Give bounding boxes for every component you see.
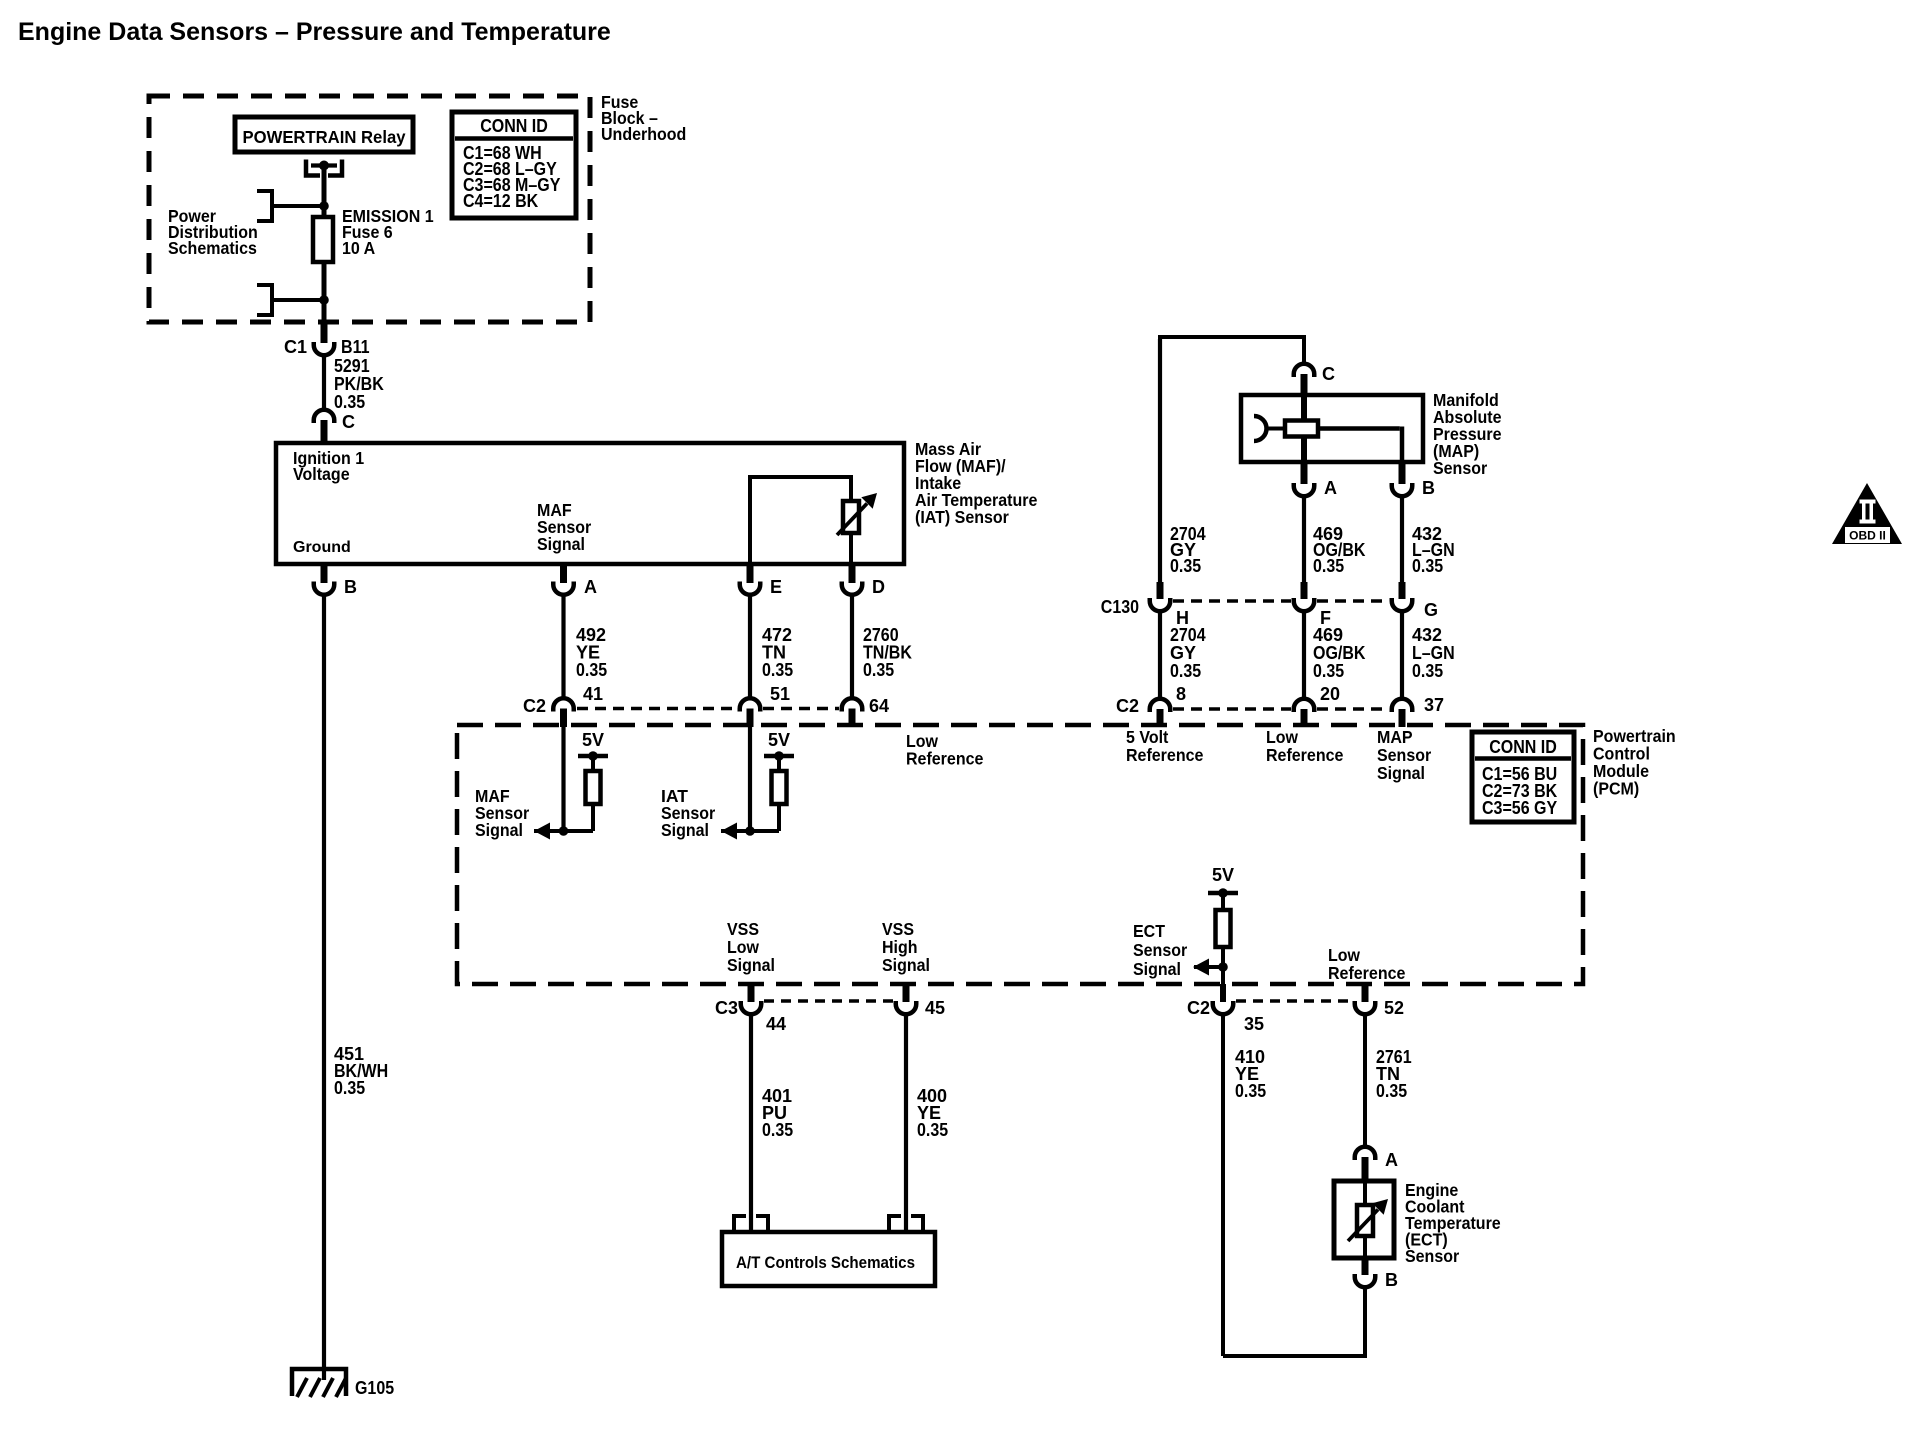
POWERTRAIN Relay box: [235, 117, 413, 152]
svg-text:Engine Data Sensors – Pressure: Engine Data Sensors – Pressure and Tempe…: [18, 18, 611, 46]
svg-text:VSS: VSS: [727, 919, 759, 939]
connector C1 pin B11: [284, 322, 370, 357]
svg-text:8: 8: [1176, 684, 1186, 704]
wire 410 YE: [1221, 1014, 1225, 1357]
svg-text:Sensor: Sensor: [1405, 1246, 1459, 1266]
wire 5291 PK/BK: [322, 354, 326, 411]
svg-text:Low: Low: [1266, 727, 1298, 747]
svg-text:0.35: 0.35: [863, 660, 894, 680]
svg-text:0.35: 0.35: [1313, 556, 1344, 576]
ground G105: [292, 1369, 394, 1398]
svg-text:469: 469: [1313, 625, 1343, 645]
connector pin A (ECT): [1355, 1147, 1398, 1181]
wire 469 OG/BK (lower): [1302, 611, 1306, 701]
connector C (MAP): [1294, 364, 1335, 395]
svg-text:OBD II: OBD II: [1849, 529, 1886, 543]
connector C2 pin 52: [1355, 998, 1404, 1018]
svg-text:0.35: 0.35: [1235, 1081, 1266, 1101]
connector C2 pin 8: [1116, 684, 1186, 727]
svg-text:G105: G105: [355, 1378, 394, 1398]
svg-text:Signal: Signal: [727, 955, 775, 975]
relay contact: [306, 160, 342, 176]
IAT thermistor symbol: [748, 475, 877, 564]
PCM dashed box: [457, 725, 1583, 984]
svg-text:(IAT) Sensor: (IAT) Sensor: [915, 507, 1009, 527]
svg-text:MAP: MAP: [1377, 727, 1413, 747]
svg-text:C2: C2: [1187, 998, 1210, 1018]
connector C130 pin G: [1392, 582, 1438, 620]
svg-text:Underhood: Underhood: [601, 124, 686, 144]
connector pin B (MAP): [1392, 462, 1435, 498]
svg-text:Signal: Signal: [537, 534, 585, 554]
connector C3 pin 44: [715, 984, 786, 1034]
jumper wire to MAP C: [1160, 337, 1304, 582]
svg-text:E: E: [770, 577, 782, 597]
svg-text:44: 44: [766, 1014, 786, 1034]
connector C (ignition): [314, 410, 355, 443]
svg-text:A/T Controls Schematics: A/T Controls Schematics: [736, 1253, 915, 1272]
wire 2760 TN/BK: [850, 594, 854, 700]
dashed connector link H-F-G: [1173, 599, 1291, 603]
svg-text:CONN ID: CONN ID: [1489, 737, 1557, 757]
svg-text:Signal: Signal: [661, 820, 709, 840]
svg-text:Voltage: Voltage: [293, 464, 350, 484]
wire 451 BK/WH to G105: [322, 594, 326, 1380]
svg-text:5291: 5291: [334, 356, 370, 376]
connector stub to power distribution (lower): [257, 285, 324, 315]
svg-text:0.35: 0.35: [917, 1120, 948, 1140]
OBD II symbol: [1832, 483, 1902, 544]
svg-text:A: A: [1385, 1150, 1398, 1170]
svg-text:Reference: Reference: [1328, 963, 1406, 983]
ECT sensor signal branch: [1133, 865, 1238, 984]
svg-text:C130: C130: [1101, 597, 1139, 617]
node: junction lower: [319, 295, 329, 305]
svg-text:OG/BK: OG/BK: [1313, 643, 1366, 663]
svg-text:C: C: [342, 412, 355, 432]
svg-text:0.35: 0.35: [334, 1078, 365, 1098]
svg-text:Reference: Reference: [906, 749, 984, 769]
svg-text:PK/BK: PK/BK: [334, 374, 384, 394]
connector C3 pin 45: [896, 984, 945, 1018]
dashed connector link 35-52: [1236, 999, 1352, 1003]
connector C130 pin F: [1294, 582, 1331, 628]
connector C2 pin 51: [740, 684, 790, 727]
wire: relay to fuse to C1: [322, 166, 327, 323]
svg-text:Ground: Ground: [293, 539, 351, 556]
wire 432 L-GN (upper): [1400, 495, 1404, 582]
svg-text:0.35: 0.35: [1170, 556, 1201, 576]
svg-text:0.35: 0.35: [576, 660, 607, 680]
CONN ID table (PCM): [1472, 732, 1574, 822]
fuse block - underhood dashed box: [149, 96, 590, 322]
svg-text:C2: C2: [523, 696, 546, 716]
svg-text:Schematics: Schematics: [168, 238, 257, 258]
wire 2704 GY (upper): [1158, 339, 1162, 582]
wire 2761 TN: [1363, 1014, 1367, 1147]
svg-text:C3: C3: [715, 998, 738, 1018]
wire 469 OG/BK (upper): [1302, 495, 1306, 582]
svg-text:5 Volt: 5 Volt: [1126, 727, 1169, 747]
svg-text:5V: 5V: [1212, 865, 1234, 885]
connector pin D: [842, 564, 885, 597]
svg-text:0.35: 0.35: [762, 660, 793, 680]
svg-text:0.35: 0.35: [1412, 661, 1443, 681]
svg-text:C2: C2: [1116, 696, 1139, 716]
svg-text:5V: 5V: [582, 730, 604, 750]
svg-text:D: D: [872, 577, 885, 597]
connector C2 pin 35: [1187, 984, 1264, 1034]
svg-text:52: 52: [1384, 998, 1404, 1018]
svg-text:35: 35: [1244, 1014, 1264, 1034]
connector C2 pin 41: [523, 684, 603, 727]
MAP sensor box: [1241, 395, 1423, 462]
svg-text:0.35: 0.35: [1376, 1081, 1407, 1101]
svg-text:Reference: Reference: [1126, 745, 1204, 765]
svg-text:CONN ID: CONN ID: [480, 116, 548, 136]
svg-text:0.35: 0.35: [1412, 556, 1443, 576]
svg-text:B11: B11: [341, 337, 370, 357]
svg-text:0.35: 0.35: [1170, 661, 1201, 681]
svg-text:Sensor: Sensor: [1433, 458, 1487, 478]
connector pin E: [740, 564, 782, 597]
ECT loop wire: [1223, 1287, 1365, 1357]
svg-text:0.35: 0.35: [1313, 661, 1344, 681]
svg-text:10 A: 10 A: [342, 238, 376, 258]
svg-text:Reference: Reference: [1266, 745, 1344, 765]
svg-text:Low: Low: [1328, 945, 1360, 965]
connector stub to power distribution (upper): [257, 191, 324, 221]
dashed connector link 8-20-37: [1173, 707, 1291, 711]
ECT sensor box: [1334, 1181, 1394, 1258]
connector pin A (MAP): [1294, 462, 1337, 498]
svg-text:41: 41: [583, 684, 603, 704]
svg-text:0.35: 0.35: [762, 1120, 793, 1140]
svg-text:2704: 2704: [1170, 625, 1206, 645]
svg-text:37: 37: [1424, 695, 1444, 715]
svg-text:Signal: Signal: [882, 955, 930, 975]
svg-text:20: 20: [1320, 684, 1340, 704]
svg-text:B: B: [344, 577, 357, 597]
svg-text:(PCM): (PCM): [1593, 779, 1639, 799]
connector pin B: [314, 564, 357, 597]
svg-text:VSS: VSS: [882, 919, 914, 939]
svg-text:GY: GY: [1170, 643, 1196, 663]
connector pin A: [553, 564, 597, 597]
wire 432 L-GN (lower): [1400, 611, 1404, 701]
svg-text:5V: 5V: [768, 730, 790, 750]
svg-text:POWERTRAIN Relay: POWERTRAIN Relay: [243, 127, 406, 147]
connector C2 pin 20: [1294, 684, 1340, 727]
svg-text:Sensor: Sensor: [1133, 940, 1187, 960]
wire 400 YE: [904, 1014, 908, 1233]
connector C2 pin 64: [842, 696, 889, 727]
dashed connector link 41-51-64: [577, 707, 737, 711]
svg-text:Signal: Signal: [475, 820, 523, 840]
svg-text:Signal: Signal: [1133, 959, 1181, 979]
svg-text:Sensor: Sensor: [1377, 745, 1431, 765]
MAF/IAT sensor box: [276, 443, 904, 564]
A/T controls box: [722, 1232, 935, 1286]
svg-text:Low: Low: [727, 937, 759, 957]
svg-text:Signal: Signal: [1377, 763, 1425, 783]
wire 472 TN: [748, 594, 752, 700]
wire 401 PU: [749, 1014, 753, 1233]
svg-text:ECT: ECT: [1133, 921, 1165, 941]
wire 492 YE: [561, 594, 565, 700]
svg-text:45: 45: [925, 998, 945, 1018]
svg-text:G: G: [1424, 600, 1438, 620]
connector C2 pin 37: [1392, 695, 1444, 727]
svg-text:High: High: [882, 937, 918, 957]
svg-text:B: B: [1422, 478, 1435, 498]
svg-text:A: A: [1324, 478, 1337, 498]
svg-text:B: B: [1385, 1270, 1398, 1290]
svg-text:C3=56 GY: C3=56 GY: [1482, 798, 1557, 818]
svg-text:C: C: [1322, 364, 1335, 384]
node: junction upper: [319, 201, 329, 211]
MAF sensor signal branch: [475, 727, 608, 840]
bracket connector (401): [734, 1216, 768, 1232]
svg-text:432: 432: [1412, 625, 1442, 645]
svg-text:C1: C1: [284, 337, 307, 357]
wire 2704 GY (lower): [1158, 611, 1162, 701]
connector pin B (ECT): [1355, 1258, 1398, 1290]
svg-text:0.35: 0.35: [334, 392, 365, 412]
dashed connector link 44-45: [764, 999, 893, 1003]
svg-text:51: 51: [770, 684, 790, 704]
connector C130 pin H: [1101, 582, 1189, 628]
svg-text:C4=12 BK: C4=12 BK: [463, 191, 538, 211]
svg-text:A: A: [584, 577, 597, 597]
svg-text:64: 64: [869, 696, 889, 716]
fuse F6 EMISSION 1: [313, 217, 333, 262]
bracket connector (400): [889, 1216, 923, 1232]
IAT sensor signal branch: [661, 727, 794, 840]
svg-text:L–GN: L–GN: [1412, 643, 1455, 663]
CONN ID table (fuse block): [452, 112, 576, 218]
